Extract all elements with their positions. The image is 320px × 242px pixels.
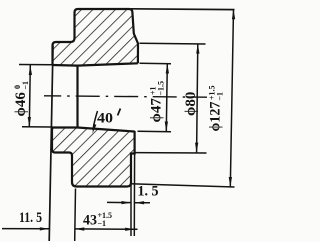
svg-text:1. 5: 1. 5 <box>138 184 159 200</box>
svg-text:ϕ46: ϕ46 <box>13 92 29 117</box>
svg-text:ϕ80: ϕ80 <box>183 92 199 116</box>
svg-text:−1: −1 <box>98 219 107 228</box>
svg-text:40: 40 <box>97 111 113 127</box>
svg-text:−1.5: −1.5 <box>157 81 166 96</box>
svg-text:11. 5: 11. 5 <box>19 210 42 226</box>
svg-text:−1: −1 <box>21 81 30 90</box>
svg-text:−1: −1 <box>216 92 225 101</box>
svg-text:ϕ127: ϕ127 <box>208 101 224 131</box>
svg-text:43: 43 <box>83 213 97 229</box>
svg-text:ϕ47: ϕ47 <box>149 98 165 123</box>
